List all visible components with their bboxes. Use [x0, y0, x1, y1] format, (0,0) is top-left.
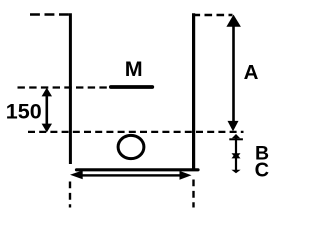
- right wall: [192, 13, 195, 171]
- dimension arrows B and C: [229, 134, 243, 173]
- bubble circle: [118, 135, 144, 158]
- piston plate: [111, 85, 153, 89]
- dimension arrow 150: [42, 88, 52, 133]
- dashed extension line below left wall: [69, 182, 71, 208]
- dashed ceiling line top-left: [30, 13, 71, 15]
- dashed ceiling line top-right: [193, 14, 233, 16]
- vessel bottom line: [77, 168, 199, 171]
- svg-text:C: C: [255, 159, 269, 181]
- svg-text:A: A: [244, 61, 259, 84]
- svg-text:M: M: [125, 57, 143, 81]
- svg-text:150: 150: [6, 100, 42, 124]
- bottom width dimension arrow: [70, 170, 192, 179]
- dashed level line at piston: [18, 86, 109, 88]
- left wall: [69, 13, 72, 164]
- dashed extension line below right wall: [192, 180, 194, 208]
- dashed level line at bubble: [28, 131, 244, 133]
- dimension arrow A: [226, 15, 241, 132]
